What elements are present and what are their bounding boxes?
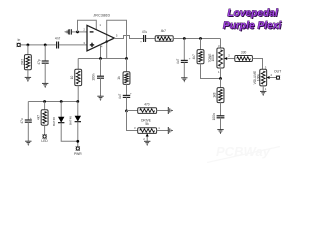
- node TONE bottom: [219, 77, 222, 80]
- diode BAT48 (right): [77, 102, 79, 117]
- ground (47u power): [25, 141, 31, 145]
- capacitor 47u (output series): [143, 35, 145, 42]
- svg-text:+: +: [189, 56, 191, 60]
- ground (VOLUME): [260, 91, 266, 95]
- ground (470, rotated right): [168, 107, 172, 114]
- ground (47p): [42, 83, 48, 87]
- capacitor 4u7 (node A to ground): [183, 39, 185, 61]
- resistor 4k7 (vertical at node B): [200, 39, 202, 50]
- svg-text:+: +: [140, 39, 142, 43]
- svg-text:In: In: [17, 38, 20, 42]
- svg-text:100n: 100n: [92, 73, 96, 80]
- ground (DRIVE wiper): [144, 141, 150, 145]
- svg-text:JRC386D: JRC386D: [93, 14, 110, 18]
- svg-text:OUT: OUT: [274, 70, 281, 74]
- jack LED: [43, 135, 46, 138]
- node diode1: [60, 100, 63, 103]
- wire 4n7 to pin3: [59, 44, 87, 46]
- capacitor 4n7 (series input): [56, 42, 58, 49]
- jack IN: [17, 43, 20, 46]
- wire pin2 node up and over to pin1: [78, 20, 97, 32]
- svg-text:47u: 47u: [142, 30, 148, 34]
- ground (tone chain): [217, 130, 223, 134]
- wire top rail pin6 to V+ chain: [107, 20, 127, 58]
- svg-text:100k: 100k: [256, 74, 260, 81]
- resistor 4k7 (output series): [155, 36, 173, 42]
- jack PWR: [76, 147, 79, 150]
- wire 9V rail: [28, 101, 78, 103]
- svg-text:LED: LED: [41, 139, 48, 143]
- resistor 2M2: [27, 45, 29, 55]
- ground (DRIVE pin1, rotated right): [168, 127, 172, 134]
- svg-text:10: 10: [70, 76, 74, 80]
- node PWR join: [76, 140, 79, 143]
- node: [99, 57, 102, 60]
- resistor 1k8: [220, 79, 222, 88]
- node diode2: [76, 100, 79, 103]
- node dot 2M2: [27, 44, 30, 47]
- wire input row: [21, 44, 56, 46]
- wire V+ rail under opamp: [78, 58, 126, 60]
- svg-text:47u: 47u: [20, 118, 24, 124]
- wire pin2: [72, 31, 87, 33]
- potentiometer VOLUME 100k: [260, 69, 267, 86]
- resistor 4k7 (LED): [44, 102, 46, 110]
- svg-text:330: 330: [241, 50, 247, 54]
- ground (2M2): [25, 77, 31, 81]
- svg-text:4k7: 4k7: [161, 29, 166, 33]
- svg-text:1k: 1k: [117, 76, 121, 80]
- capacitor 47p: [44, 45, 46, 61]
- op-amp U1 JRC386D: [87, 25, 114, 51]
- svg-text:4u7: 4u7: [176, 59, 180, 65]
- diode BAT48 (left): [60, 102, 62, 118]
- node 47u: [43, 100, 46, 103]
- potentiometer TONE 100k: [220, 39, 222, 49]
- capacitor pin2 bypass: [69, 29, 71, 34]
- node pin2: [76, 31, 79, 34]
- node A: [183, 37, 186, 40]
- svg-text:Purple Plexi: Purple Plexi: [223, 21, 281, 32]
- capacitor 100n (supply bypass): [100, 59, 102, 77]
- svg-text:4u7: 4u7: [118, 94, 122, 100]
- svg-text:4k7: 4k7: [37, 115, 41, 120]
- svg-text:BAT48: BAT48: [52, 117, 56, 126]
- node dot 47p: [44, 44, 47, 47]
- capacitor 100n (tone chain): [217, 115, 225, 117]
- node: [125, 57, 128, 60]
- svg-text:Lovepedal: Lovepedal: [227, 8, 278, 19]
- svg-text:BAT48: BAT48: [69, 116, 73, 125]
- svg-text:PWR: PWR: [74, 152, 82, 156]
- svg-text:+: +: [130, 91, 132, 95]
- resistor 330: [235, 56, 253, 62]
- svg-text:5k: 5k: [145, 122, 149, 126]
- capacitor 47u (power filter): [27, 102, 29, 121]
- node B: [199, 37, 202, 40]
- resistor 470: [138, 108, 157, 114]
- svg-text:4k7: 4k7: [192, 54, 196, 59]
- capacitor 4u7 (gain chain): [123, 94, 130, 96]
- ground (pin2 cap, rotated left): [65, 29, 69, 34]
- svg-text:4n7: 4n7: [55, 36, 61, 40]
- svg-text:1k8: 1k8: [213, 92, 217, 97]
- svg-text:100k: 100k: [211, 54, 215, 61]
- svg-text:47p: 47p: [37, 59, 41, 65]
- wiper DRIVE: [146, 133, 149, 136]
- svg-text:2M2: 2M2: [20, 59, 24, 65]
- potentiometer DRIVE 5k: [138, 128, 157, 134]
- resistor 10: [77, 59, 79, 70]
- resistor 1k (V+ chain): [126, 59, 128, 72]
- ground (100n): [97, 96, 103, 100]
- watermark PCBWay: [207, 144, 280, 163]
- jack OUT: [276, 76, 279, 79]
- svg-text:+: +: [30, 116, 32, 120]
- svg-text:100n: 100n: [212, 113, 216, 120]
- wire pin4 stub: [100, 45, 102, 59]
- ground (4u7 node A): [181, 78, 187, 82]
- node on opamp bottom edge: [106, 40, 108, 42]
- svg-text:470: 470: [144, 102, 150, 106]
- wire output with hop: [114, 36, 143, 39]
- svg-text:PCBWay: PCBWay: [216, 144, 271, 159]
- node drive: [125, 110, 128, 113]
- title Lovepedal Purple Plexi: [223, 8, 282, 32]
